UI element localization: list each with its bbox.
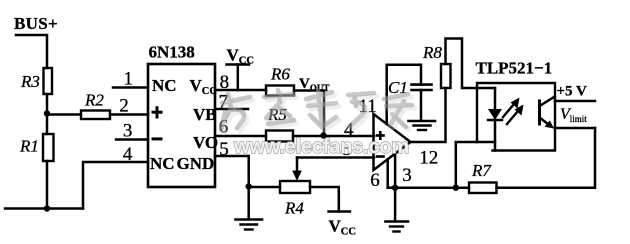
svg-text:R8: R8 bbox=[422, 43, 442, 62]
svg-text:NC: NC bbox=[150, 154, 175, 173]
svg-text:R2: R2 bbox=[84, 91, 104, 110]
svg-text:5: 5 bbox=[219, 139, 229, 160]
svg-text:VO: VO bbox=[193, 133, 218, 152]
wire R6 to Vout corner down to node bbox=[294, 91, 324, 136]
resistor R5 bbox=[266, 131, 293, 142]
IC pin label plus bbox=[152, 106, 163, 118]
IC pin label minus bbox=[152, 137, 163, 140]
node cathode R7 junction bbox=[453, 185, 459, 191]
wire collector stub +5V bbox=[555, 100, 595, 103]
wire emitter to Vlimit drop bbox=[555, 127, 595, 130]
wire pin5 to ground bbox=[215, 156, 249, 187]
wire ground rail under pin5 to R4 bbox=[249, 186, 280, 189]
potentiometer R4 bbox=[280, 181, 310, 193]
wire R4 right to Vcc stub bbox=[310, 187, 339, 212]
svg-text:6N138: 6N138 bbox=[149, 43, 195, 62]
watermark band bbox=[224, 93, 415, 133]
wire pin6 to R5 bbox=[215, 135, 266, 138]
svg-text:4: 4 bbox=[123, 144, 133, 165]
wire R8 top loop to LED anode bbox=[446, 39, 496, 89]
node R3/R1/R2 junction bbox=[44, 110, 50, 116]
power VCC stub bottom (bar) bbox=[329, 210, 351, 212]
svg-text:3: 3 bbox=[402, 165, 412, 186]
svg-text:8: 8 bbox=[220, 72, 230, 93]
opamp plus sign bbox=[376, 131, 385, 140]
wire opamp output to R8 bottom bbox=[411, 88, 446, 142]
ground under pin5 bbox=[236, 187, 263, 230]
wire R3 bottom to junction bbox=[46, 94, 49, 134]
node pin5 ground R4 junction bbox=[246, 183, 252, 189]
svg-text:R4: R4 bbox=[284, 199, 304, 218]
node R1 bottom rail junction bbox=[44, 205, 50, 211]
svg-text:1: 1 bbox=[124, 69, 134, 90]
LED inside TLP bbox=[488, 88, 502, 151]
wire BUS+ top bbox=[16, 35, 47, 68]
op-amp U2 triangle bbox=[374, 114, 411, 170]
svg-text:6: 6 bbox=[370, 170, 380, 191]
svg-text:R1: R1 bbox=[19, 137, 39, 156]
resistor R7 bbox=[469, 183, 497, 194]
wire R4 wiper rail to opamp minus input bbox=[297, 156, 374, 159]
ground under C1 bbox=[409, 121, 436, 130]
power VCC stub at pin8 bbox=[227, 65, 250, 91]
opamp minus sign bbox=[376, 155, 385, 158]
svg-text:3: 3 bbox=[123, 121, 132, 142]
ground under op-amp bbox=[386, 188, 409, 232]
node junction dots bbox=[44, 110, 459, 211]
svg-text:2: 2 bbox=[119, 96, 129, 117]
wire rail between drops bbox=[388, 186, 395, 189]
wire pin1 bbox=[113, 86, 148, 89]
wire opamp pin3 drop bbox=[394, 154, 397, 188]
wire bottom rail bbox=[5, 207, 83, 210]
watermark url text bbox=[233, 136, 409, 158]
wire pin11 vertical and L to C1 bbox=[387, 65, 421, 124]
node Vout opamp plus junction bbox=[320, 132, 326, 138]
wire pin8 bbox=[215, 89, 266, 92]
resistor R3 bbox=[44, 68, 53, 94]
resistor R6 bbox=[266, 86, 294, 96]
R4 wiper arrow bbox=[292, 158, 302, 182]
wire pin3 bbox=[116, 138, 148, 141]
wire R2 right to pin2 bbox=[110, 113, 148, 116]
svg-text:VB: VB bbox=[193, 105, 217, 124]
svg-text:R7: R7 bbox=[471, 161, 492, 180]
svg-text:R3: R3 bbox=[20, 72, 40, 91]
wire ground rail to R7 bbox=[395, 186, 469, 189]
svg-text:12: 12 bbox=[419, 148, 438, 169]
wire R2 left bbox=[47, 113, 81, 116]
wire R5 to opamp plus input bbox=[293, 135, 374, 138]
wire LED cathode down to rail bbox=[456, 142, 495, 188]
svg-text:BUS+: BUS+ bbox=[14, 14, 58, 33]
resistor R2 bbox=[81, 111, 110, 120]
svg-text:+5 V: +5 V bbox=[557, 84, 588, 100]
resistor R1 bbox=[43, 134, 54, 161]
wire R1 bottom to bottom rail bbox=[46, 161, 49, 209]
svg-text:www.elecfans.com: www.elecfans.com bbox=[233, 136, 409, 158]
svg-text:NC: NC bbox=[152, 76, 177, 95]
optocoupler TLP521-1 box bbox=[477, 83, 555, 151]
wire pin7 stub bbox=[215, 108, 248, 111]
capacitor C1 bbox=[412, 85, 432, 120]
LED emission arrows bbox=[503, 98, 524, 125]
wire R7 right up to Vlimit bbox=[497, 128, 596, 188]
svg-text:R6: R6 bbox=[270, 65, 290, 84]
wire opamp pin6 drop bbox=[386, 160, 389, 188]
resistor R8 bbox=[441, 64, 451, 88]
svg-text:GND: GND bbox=[177, 154, 215, 173]
optocoupler U1 6N138 box bbox=[148, 64, 215, 187]
phototransistor inside TLP bbox=[540, 97, 555, 129]
node opamp ground junction bbox=[392, 185, 398, 191]
wire pin4 L bbox=[83, 162, 148, 209]
svg-text:TLP521−1: TLP521−1 bbox=[476, 59, 553, 78]
